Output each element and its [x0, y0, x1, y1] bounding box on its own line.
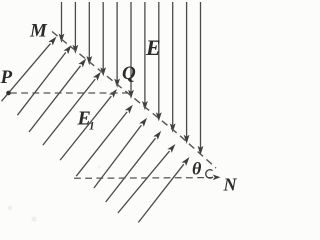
scan smudges (faint) [8, 206, 12, 210]
field line E v5 [114, 2, 120, 88]
svg-text:M: M [29, 21, 48, 42]
field line E v2 [73, 2, 79, 54]
svg-text:θ: θ [192, 159, 202, 179]
dashed horizontal line through P [10, 92, 128, 94]
field line E v8 [156, 2, 162, 121]
field line E1 d9 [118, 144, 175, 213]
field line E v4 [100, 2, 106, 76]
svg-text:Q: Q [122, 63, 136, 84]
field line E v6 [128, 2, 134, 99]
boundary line MN (dashed) [52, 32, 216, 169]
angle arc theta [206, 170, 213, 178]
svg-text:E: E [145, 35, 161, 60]
field line E1 d3 [29, 59, 86, 133]
field line E v7 [142, 2, 148, 110]
point P dot [6, 91, 11, 96]
field line E1 d2 [17, 45, 71, 115]
field line E v11 [198, 2, 204, 155]
field line E1 d7 [94, 118, 147, 188]
svg-text:N: N [223, 175, 238, 195]
field line E1 d1 [2, 37, 57, 102]
field line E1 d8 [106, 131, 162, 202]
svg-text:P: P [0, 67, 13, 88]
field line E1 d6 [76, 105, 133, 177]
field line E v10 [184, 2, 190, 144]
field line E v3 [86, 2, 92, 65]
field line E1 d5 [60, 89, 117, 160]
field line E v1 [59, 2, 65, 43]
field line E v9 [170, 2, 176, 133]
dashed horizontal line through N with end arrow [74, 175, 221, 181]
field line E1 d10 [138, 157, 189, 223]
field line E1 d4 [43, 72, 101, 145]
